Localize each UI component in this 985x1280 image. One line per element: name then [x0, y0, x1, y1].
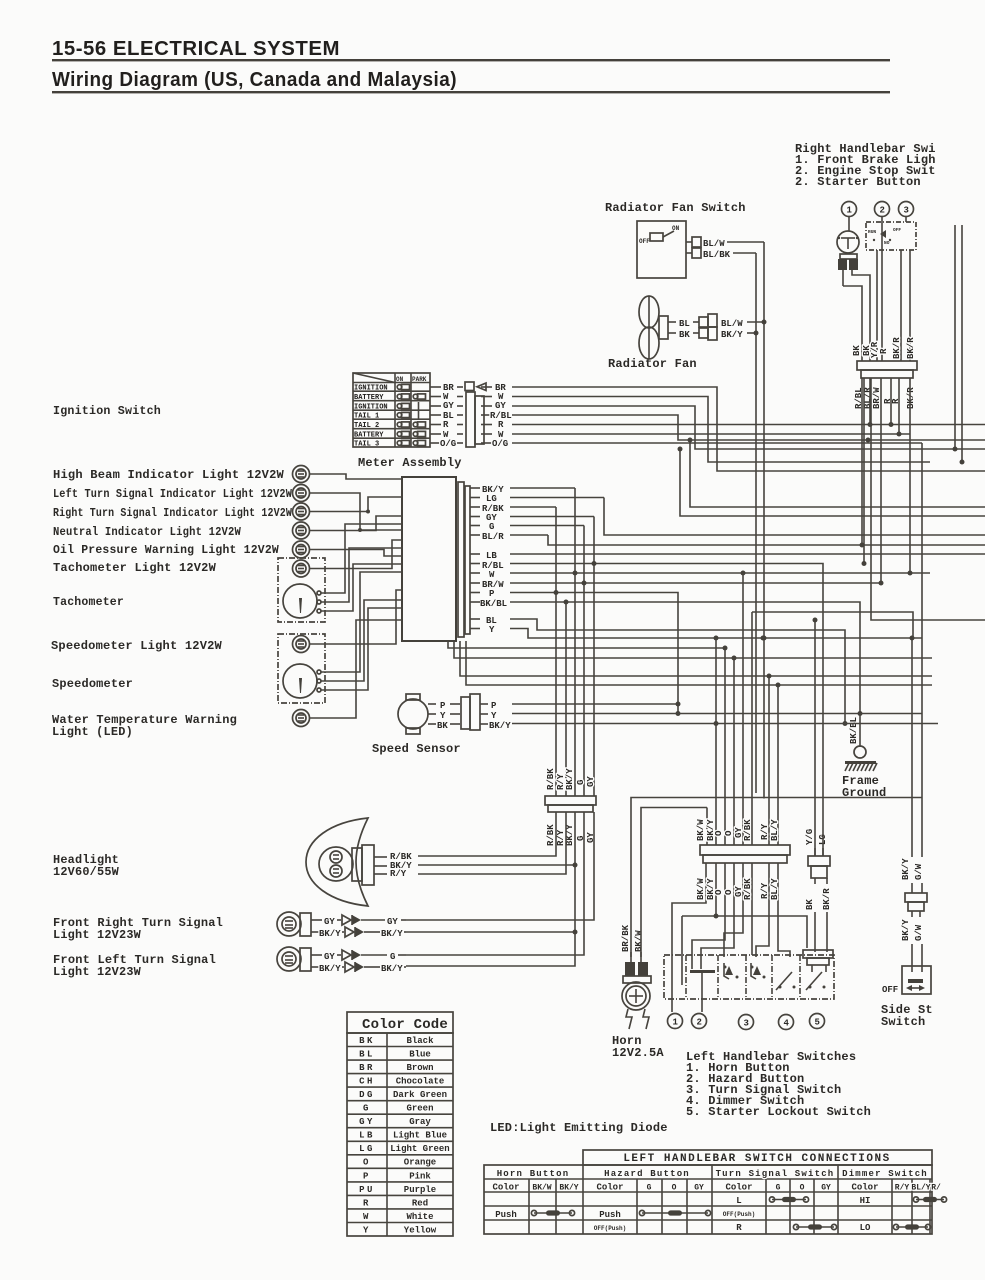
- svg-text:O: O: [363, 1158, 371, 1168]
- svg-text:GY: GY: [495, 401, 506, 411]
- box5 dimmer blade: [776, 972, 792, 990]
- svg-text:G: G: [363, 1104, 371, 1114]
- svg-text:BK/Y: BK/Y: [565, 768, 575, 790]
- svg-text:O: O: [724, 889, 734, 895]
- svg-text:Black: Black: [406, 1036, 434, 1046]
- right handlebar rails below connector: [849, 217, 913, 576]
- svg-text:BK/W: BK/W: [532, 1184, 551, 1193]
- svg-text:Dark Green: Dark Green: [393, 1090, 447, 1100]
- svg-text:BATTERY: BATTERY: [354, 394, 384, 402]
- svg-text:Brown: Brown: [406, 1063, 433, 1073]
- svg-text:Tachometer Light 12V2W: Tachometer Light 12V2W: [53, 561, 217, 575]
- svg-text:LB: LB: [359, 1131, 375, 1141]
- svg-text:LO: LO: [860, 1223, 871, 1233]
- svg-text:R/: R/: [931, 1184, 941, 1193]
- svg-text:12V60/55W: 12V60/55W: [53, 865, 120, 879]
- svg-text:GY: GY: [694, 1184, 704, 1193]
- horn wires up: [631, 798, 922, 958]
- svg-text:P: P: [489, 589, 495, 599]
- box3 turn signal contacts: [724, 966, 727, 969]
- svg-text:BK/R: BK/R: [906, 337, 916, 359]
- left column labels: [51, 142, 936, 1135]
- svg-text:R: R: [443, 420, 449, 430]
- box6 starter lockout blade: [806, 972, 822, 990]
- svg-text:OFF(Push): OFF(Push): [723, 1211, 755, 1218]
- svg-text:BK/Y: BK/Y: [489, 721, 511, 731]
- svg-text:BK/Y: BK/Y: [559, 1184, 578, 1193]
- svg-text:Y: Y: [363, 1225, 371, 1235]
- svg-text:GY: GY: [324, 917, 335, 927]
- svg-text:G/W: G/W: [914, 924, 924, 941]
- bar B verticals below: [672, 863, 807, 985]
- svg-text:G: G: [776, 1184, 781, 1193]
- svg-text:PARK: PARK: [412, 376, 427, 383]
- svg-text:LB: LB: [486, 551, 497, 561]
- front right turn signal: [277, 912, 406, 939]
- svg-text:BK: BK: [437, 721, 448, 731]
- svg-text:BK/Y: BK/Y: [706, 878, 716, 900]
- svg-text:G/W: G/W: [914, 863, 924, 880]
- svg-text:Y: Y: [489, 625, 495, 635]
- svg-text:RUN: RUN: [868, 229, 876, 235]
- svg-text:Turn Signal Switch: Turn Signal Switch: [716, 1169, 835, 1179]
- ignition out labels right: [490, 383, 512, 449]
- svg-text:BK/BL: BK/BL: [849, 717, 859, 744]
- svg-text:White: White: [406, 1212, 433, 1222]
- svg-text:BL/W: BL/W: [721, 319, 743, 329]
- svg-text:BL: BL: [359, 1050, 375, 1060]
- svg-text:OFF: OFF: [882, 985, 898, 995]
- svg-text:G: G: [489, 522, 494, 532]
- radiator fan switch: [637, 221, 764, 278]
- svg-text:LG: LG: [359, 1144, 375, 1154]
- svg-text:Speedometer: Speedometer: [52, 677, 133, 691]
- svg-text:Dimmer Switch: Dimmer Switch: [842, 1169, 928, 1179]
- svg-text:GY: GY: [443, 401, 454, 411]
- meter bottom wires to bar B: [448, 573, 932, 845]
- svg-text:BK/Y: BK/Y: [901, 919, 911, 941]
- svg-text:2: 2: [697, 1018, 702, 1028]
- svg-text:O/G: O/G: [440, 439, 456, 449]
- svg-text:Light 12V23W: Light 12V23W: [53, 928, 142, 942]
- svg-text:IGNITION: IGNITION: [354, 385, 388, 393]
- svg-text:L: L: [736, 1196, 741, 1206]
- bar A verticals up: [554, 488, 597, 796]
- svg-text:BL/R: BL/R: [482, 532, 504, 542]
- svg-text:R: R: [363, 1198, 371, 1208]
- frame ground: [845, 717, 877, 771]
- svg-text:BK: BK: [805, 899, 815, 910]
- svg-text:BL/Y: BL/Y: [770, 878, 780, 900]
- ignition rows: [353, 384, 492, 448]
- svg-text:O: O: [714, 830, 724, 836]
- svg-text:Yellow: Yellow: [404, 1225, 437, 1235]
- svg-text:GY: GY: [387, 917, 398, 927]
- svg-text:Gray: Gray: [409, 1117, 431, 1127]
- svg-text:DG: DG: [359, 1090, 375, 1100]
- svg-text:P: P: [440, 701, 446, 711]
- svg-text:BK/R: BK/R: [906, 387, 916, 409]
- right handlebar labels below connector: [854, 387, 916, 409]
- svg-text:BK/W: BK/W: [696, 878, 706, 900]
- svg-text:Oil Pressure Warning Light 12V: Oil Pressure Warning Light 12V2W: [53, 543, 280, 557]
- svg-text:PU: PU: [359, 1185, 375, 1195]
- svg-text:R: R: [736, 1223, 742, 1233]
- ignition connector: [466, 392, 484, 447]
- svg-text:BK/Y: BK/Y: [901, 858, 911, 880]
- svg-text:Light 12V23W: Light 12V23W: [53, 965, 142, 979]
- svg-text:G: G: [576, 780, 586, 785]
- svg-text:R: R: [498, 420, 504, 430]
- box1 horn button wire: [671, 955, 673, 1012]
- svg-text:Blue: Blue: [409, 1050, 431, 1060]
- svg-text:TAIL 2: TAIL 2: [354, 422, 379, 430]
- bar A to lamps: [406, 812, 594, 966]
- svg-text:BL/Y: BL/Y: [911, 1184, 930, 1193]
- svg-text:BK: BK: [852, 345, 862, 356]
- svg-text:5. Starter Lockout Switch: 5. Starter Lockout Switch: [686, 1105, 871, 1119]
- speedometer gauge: [278, 634, 325, 703]
- svg-text:BK/Y: BK/Y: [319, 929, 341, 939]
- svg-text:TAIL 1: TAIL 1: [354, 413, 379, 421]
- svg-text:BK/Y: BK/Y: [706, 819, 716, 841]
- svg-text:P: P: [491, 701, 497, 711]
- ignition switch output runs: [512, 387, 985, 471]
- svg-text:Color: Color: [596, 1183, 623, 1193]
- svg-text:3: 3: [904, 206, 909, 216]
- meter group3 runs BL Y: [510, 443, 922, 857]
- svg-text:Y: Y: [491, 711, 497, 721]
- bar B connector: [696, 819, 790, 900]
- svg-text:Orange: Orange: [404, 1158, 436, 1168]
- right handlebar wire labels above connector: [852, 337, 916, 359]
- svg-text:High Beam Indicator Light 12V2: High Beam Indicator Light 12V2W: [53, 468, 285, 482]
- svg-text:BATTERY: BATTERY: [354, 432, 384, 440]
- svg-text:BK/W: BK/W: [696, 819, 706, 841]
- svg-text:Neutral Indicator Light 12V2W: Neutral Indicator Light 12V2W: [53, 525, 242, 539]
- svg-text:Hazard Button: Hazard Button: [604, 1169, 690, 1179]
- svg-text:BK: BK: [359, 1036, 375, 1046]
- svg-text:3: 3: [744, 1019, 749, 1029]
- meter assembly box: [402, 477, 470, 641]
- svg-text:O: O: [724, 830, 734, 836]
- svg-text:R/Y: R/Y: [390, 869, 407, 879]
- svg-text:W: W: [363, 1212, 371, 1222]
- headlight shell: [306, 818, 412, 906]
- svg-text:1: 1: [847, 206, 853, 216]
- front brake light switch: [837, 231, 870, 361]
- left handlebar switch boxes: [664, 955, 834, 1012]
- svg-text:Red: Red: [412, 1198, 428, 1208]
- side stand switch: [882, 858, 931, 995]
- svg-text:Switch: Switch: [881, 1015, 925, 1029]
- svg-text:O/G: O/G: [492, 439, 508, 449]
- meter out stubs: [470, 488, 480, 629]
- svg-text:Color: Color: [851, 1183, 878, 1193]
- radiator fan: [639, 296, 764, 359]
- svg-text:Y/G: Y/G: [805, 829, 815, 845]
- svg-text:BK/Y: BK/Y: [381, 929, 403, 939]
- svg-text:GY: GY: [324, 952, 335, 962]
- left handlebar switch connections table: [484, 1150, 947, 1234]
- bulb to meter wires: [310, 474, 402, 718]
- svg-text:W: W: [489, 570, 495, 580]
- svg-text:ON: ON: [396, 376, 404, 383]
- svg-text:Meter Assembly: Meter Assembly: [358, 456, 462, 470]
- svg-text:LG: LG: [486, 494, 497, 504]
- svg-text:Push: Push: [495, 1210, 517, 1220]
- front left turn signal: [277, 947, 406, 974]
- svg-text:2: 2: [880, 206, 885, 216]
- svg-text:BK/W: BK/W: [634, 930, 644, 952]
- svg-text:GY: GY: [821, 1184, 831, 1193]
- svg-text:BL: BL: [679, 319, 690, 329]
- speed sensor runs: [512, 702, 938, 727]
- connector above starter lockout: [803, 950, 833, 972]
- svg-text:1: 1: [673, 1018, 679, 1028]
- svg-text:4: 4: [784, 1019, 790, 1029]
- svg-text:BK/BL: BK/BL: [480, 599, 507, 609]
- indicator bulbs: [293, 466, 310, 727]
- svg-text:BK/R: BK/R: [822, 888, 832, 910]
- svg-text:Push: Push: [599, 1210, 621, 1220]
- svg-text:OFF(Push): OFF(Push): [594, 1225, 626, 1232]
- meter out labels: [480, 485, 507, 635]
- right handlebar connector bar: [857, 361, 917, 378]
- svg-text:R/Y: R/Y: [760, 823, 770, 840]
- svg-text:Radiator Fan Switch: Radiator Fan Switch: [605, 201, 746, 215]
- svg-text:Ignition Switch: Ignition Switch: [53, 404, 161, 418]
- bar A connector: [545, 768, 596, 846]
- svg-text:R: R: [879, 348, 889, 354]
- svg-text:R/BK: R/BK: [546, 768, 556, 790]
- svg-text:Speed Sensor: Speed Sensor: [372, 742, 461, 756]
- svg-text:Color Code: Color Code: [362, 1017, 448, 1033]
- radiator verticals: [754, 242, 767, 799]
- svg-text:G: G: [390, 952, 395, 962]
- svg-text:Chocolate: Chocolate: [396, 1077, 445, 1087]
- svg-text:Wiring Diagram (US, Canada and: Wiring Diagram (US, Canada and Malaysia): [52, 69, 457, 91]
- meter group2 runs: [510, 378, 985, 856]
- svg-text:R/Y: R/Y: [895, 1184, 910, 1193]
- meter group1 runs: [510, 378, 985, 856]
- svg-text:TAIL 3: TAIL 3: [354, 441, 379, 449]
- svg-text:Radiator Fan: Radiator Fan: [608, 357, 697, 371]
- svg-text:Color: Color: [492, 1183, 519, 1193]
- svg-text:LEFT HANDLEBAR SWITCH CONNECTI: LEFT HANDLEBAR SWITCH CONNECTIONS: [623, 1153, 890, 1165]
- horn: [621, 924, 651, 1029]
- svg-text:ON: ON: [672, 225, 680, 232]
- svg-text:O: O: [800, 1184, 805, 1193]
- svg-text:R/BK: R/BK: [546, 824, 556, 846]
- svg-text:R/Y: R/Y: [760, 882, 770, 899]
- svg-text:5: 5: [815, 1018, 820, 1028]
- svg-text:BL/W: BL/W: [703, 239, 725, 249]
- svg-text:BR: BR: [359, 1063, 375, 1073]
- color code table: [347, 1012, 453, 1236]
- speed sensor: [398, 694, 511, 734]
- svg-text:Horn Button: Horn Button: [497, 1169, 570, 1179]
- svg-text:BR/BK: BR/BK: [621, 924, 631, 952]
- svg-text:NO: NO: [884, 240, 890, 246]
- svg-text:Light Blue: Light Blue: [393, 1131, 447, 1141]
- svg-text:OFF: OFF: [639, 238, 650, 245]
- ignition out labels left: [440, 383, 456, 449]
- svg-text:OFF: OFF: [893, 227, 901, 233]
- tachometer gauge: [278, 558, 325, 622]
- box2 hazard bar: [690, 970, 715, 973]
- svg-text:BK/Y: BK/Y: [319, 964, 341, 974]
- svg-text:BK/Y: BK/Y: [721, 330, 743, 340]
- svg-text:HI: HI: [860, 1196, 871, 1206]
- svg-text:15-56 ELECTRICAL SYSTEM: 15-56 ELECTRICAL SYSTEM: [52, 38, 340, 60]
- svg-text:Speedometer Light 12V2W: Speedometer Light 12V2W: [51, 639, 223, 653]
- svg-text:BL/BK: BL/BK: [703, 250, 731, 260]
- svg-text:2. Starter Button: 2. Starter Button: [795, 175, 921, 189]
- svg-text:R/BK: R/BK: [743, 878, 753, 900]
- svg-text:BL/Y: BL/Y: [770, 819, 780, 841]
- svg-text:GY: GY: [359, 1117, 375, 1127]
- circled numbers bottom: [668, 1014, 825, 1030]
- svg-text:Light (LED): Light (LED): [52, 725, 133, 739]
- svg-text:12V2.5A: 12V2.5A: [612, 1046, 664, 1060]
- svg-text:Left Turn Signal Indicator Lig: Left Turn Signal Indicator Light 12V2W: [53, 487, 293, 501]
- svg-text:G: G: [647, 1184, 652, 1193]
- svg-text:Right Turn Signal Indicator Li: Right Turn Signal Indicator Light 12V2W: [53, 506, 292, 520]
- svg-text:Purple: Purple: [404, 1185, 436, 1195]
- svg-text:IGNITION: IGNITION: [354, 404, 388, 412]
- svg-text:GY: GY: [586, 776, 596, 787]
- svg-text:BK/R: BK/R: [892, 337, 902, 359]
- svg-text:BK: BK: [679, 330, 690, 340]
- ignition switch table: [353, 373, 430, 447]
- svg-text:P: P: [363, 1171, 371, 1181]
- svg-text:LED:Light Emitting Diode: LED:Light Emitting Diode: [490, 1121, 668, 1135]
- svg-text:Green: Green: [406, 1104, 433, 1114]
- svg-text:BK/Y: BK/Y: [381, 964, 403, 974]
- right handlebar circled numbers: [842, 202, 914, 217]
- diode on BR line: [465, 382, 486, 391]
- header: [52, 38, 890, 93]
- svg-text:Tachometer: Tachometer: [53, 595, 124, 609]
- svg-text:O: O: [672, 1184, 677, 1193]
- svg-text:O: O: [714, 889, 724, 895]
- svg-text:Y: Y: [440, 711, 446, 721]
- svg-text:Light Green: Light Green: [390, 1144, 449, 1154]
- svg-text:CH: CH: [359, 1077, 375, 1087]
- Y/G LG connector mid: [805, 829, 832, 952]
- engine stop switch dashed box: [866, 216, 916, 361]
- svg-text:Color: Color: [725, 1183, 752, 1193]
- svg-text:Pink: Pink: [409, 1171, 431, 1181]
